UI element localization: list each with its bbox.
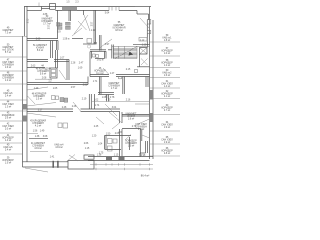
elevator by stairs [140, 48, 148, 55]
left margin separator lines [0, 37, 27, 155]
svg-text:2.1 м²: 2.1 м² [164, 95, 170, 98]
outer top wall [25, 7, 152, 21]
svg-text:18.9 м²: 18.9 м² [115, 29, 123, 32]
dimension texts [31, 2, 147, 159]
svg-text:1.59 м: 1.59 м [63, 39, 70, 41]
svg-text:3.04: 3.04 [112, 107, 117, 109]
stairwell left wall [112, 45, 114, 59]
wall y83 left [27, 77, 88, 85]
svg-text:1.9 м²: 1.9 м² [138, 128, 144, 131]
lower rooms walls [105, 136, 132, 151]
svg-text:1.10: 1.10 [142, 45, 147, 47]
WC door stub [83, 11, 85, 16]
wall WC divider [69, 11, 71, 22]
svg-text:4.91 м²: 4.91 м² [34, 147, 42, 150]
svg-text:1.47: 1.47 [110, 73, 115, 75]
right wall fills [150, 90, 153, 100]
dim line y101 [92, 101, 150, 103]
svg-text:2.78: 2.78 [132, 126, 137, 128]
svg-text:1.02: 1.02 [94, 100, 99, 102]
bottom right inner wall [140, 141, 148, 157]
kitchen room 51 walls [51, 41, 59, 59]
axis circle [87, 45, 90, 48]
corridor vertical wall [120, 112, 123, 157]
svg-text:5.0 м²: 5.0 м² [37, 49, 43, 52]
svg-text:2.66: 2.66 [84, 143, 89, 145]
svg-text:2.57: 2.57 [49, 24, 51, 29]
svg-text:2.57: 2.57 [92, 21, 94, 26]
svg-text:2.0 м²: 2.0 м² [5, 128, 11, 131]
svg-text:4.1 м²: 4.1 м² [35, 125, 41, 128]
svg-text:2.15: 2.15 [126, 69, 131, 71]
top tick [38, 3, 40, 7]
small fixtures left of stair hall [93, 54, 96, 57]
svg-text:2.98: 2.98 [141, 155, 146, 157]
svg-text:1.0 м²: 1.0 м² [164, 52, 170, 55]
svg-text:2.53: 2.53 [28, 18, 30, 23]
svg-text:2.4 м²: 2.4 м² [5, 149, 11, 152]
svg-text:1.05: 1.05 [53, 88, 58, 90]
svg-text:2.16: 2.16 [126, 100, 131, 102]
svg-text:1.8 м²: 1.8 м² [128, 118, 134, 121]
svg-text:1.75: 1.75 [99, 153, 104, 155]
svg-text:1.8 м²: 1.8 м² [164, 39, 170, 42]
svg-text:1.41: 1.41 [50, 157, 55, 159]
interior: wall under top WCs [27, 39, 96, 45]
svg-text:1.71: 1.71 [93, 81, 98, 83]
rooms below wall y75: vertical dividers [98, 77, 148, 95]
door diagonals [74, 15, 88, 34]
fixtures bottom rooms [108, 139, 113, 144]
svg-text:1.20: 1.20 [92, 136, 97, 138]
leader lines left-mid [27, 103, 56, 107]
svg-text:2.28: 2.28 [72, 106, 77, 108]
svg-text:2.57: 2.57 [71, 87, 76, 89]
entrance porch [68, 161, 94, 170]
svg-text:86.4 м²: 86.4 м² [141, 174, 150, 178]
wall between WC and room55 [94, 11, 96, 45]
svg-text:1.4 м²: 1.4 м² [5, 139, 11, 142]
chimney box on top wall [50, 4, 56, 10]
svg-text:1.5 м²: 1.5 м² [128, 145, 134, 148]
svg-text:1.7 м²: 1.7 м² [111, 87, 117, 90]
entrance step [84, 155, 94, 159]
stairwell [112, 46, 150, 58]
svg-text:4.91 м²: 4.91 м² [55, 146, 63, 149]
svg-text:2.6 м²: 2.6 м² [5, 117, 11, 120]
long wall y110 [27, 109, 120, 112]
svg-text:5.64: 5.64 [105, 13, 110, 15]
svg-text:11.1 м²: 11.1 м² [96, 72, 104, 75]
svg-text:1.5 м²: 1.5 м² [5, 162, 11, 165]
svg-text:1.12: 1.12 [140, 40, 145, 42]
dark fill wall top x94 [94, 42, 97, 44]
svg-text:2.63: 2.63 [31, 66, 36, 68]
svg-text:1.69: 1.69 [78, 68, 83, 70]
svg-text:4.70: 4.70 [106, 100, 111, 102]
room divider x123 [123, 77, 125, 95]
svg-text:2.47: 2.47 [79, 63, 84, 65]
lower dim lines under bottom wall [90, 163, 153, 170]
door into lower room [73, 102, 81, 111]
svg-text:3.08: 3.08 [43, 136, 48, 138]
svg-text:1.49: 1.49 [40, 131, 45, 133]
outer left wall [23, 6, 28, 167]
svg-text:1.38: 1.38 [35, 136, 40, 138]
thick wall mid-left [27, 60, 69, 68]
wall y139 small [29, 138, 48, 140]
svg-text:1.2 м²: 1.2 м² [164, 64, 170, 67]
fixtures mid [60, 98, 64, 102]
right margin labels [161, 35, 173, 155]
svg-text:1.56: 1.56 [33, 131, 38, 133]
svg-text:5.7 м²: 5.7 м² [5, 51, 11, 54]
svg-text:1.6 м²: 1.6 м² [5, 66, 11, 69]
svg-text:2.78: 2.78 [110, 97, 115, 99]
svg-text:2.4 м²: 2.4 м² [5, 95, 11, 98]
svg-text:1.38: 1.38 [97, 155, 102, 157]
svg-text:1.2 м²: 1.2 м² [5, 79, 11, 82]
svg-text:2.53: 2.53 [83, 85, 88, 87]
rotated dims [28, 18, 109, 98]
svg-text:1.15: 1.15 [114, 155, 119, 157]
svg-text:1.74: 1.74 [95, 105, 100, 107]
svg-text:1.6 м²: 1.6 м² [164, 74, 170, 77]
bottom wall left part [23, 162, 69, 167]
left margin labels [2, 28, 15, 165]
radiator top right wall [139, 38, 147, 42]
fixtures room 47 [52, 96, 56, 100]
wall above corridor mid [90, 50, 112, 59]
wall room55 left lower [100, 35, 102, 51]
svg-text:2.19: 2.19 [82, 99, 87, 101]
right margin separator lines [150, 42, 180, 156]
wall between room53 and WC [57, 11, 59, 39]
svg-text:2.08: 2.08 [42, 77, 47, 79]
svg-text:1.49: 1.49 [34, 88, 39, 90]
kitchen room walls right [122, 129, 142, 157]
svg-text:5.9 м²: 5.9 м² [40, 73, 46, 76]
svg-text:0.97: 0.97 [105, 44, 110, 46]
entrance door piers [53, 161, 54, 168]
svg-text:2.60: 2.60 [36, 39, 41, 41]
svg-text:2.7 м²: 2.7 м² [164, 109, 170, 112]
svg-text:1.07: 1.07 [60, 58, 65, 60]
svg-text:2.45: 2.45 [94, 126, 99, 128]
svg-text:2.17: 2.17 [38, 110, 43, 112]
svg-text:2.48: 2.48 [62, 107, 67, 109]
vertical walls x67-69 [56, 50, 70, 80]
svg-text:1.3 м²: 1.3 м² [5, 106, 11, 109]
svg-text:7.3 м²: 7.3 м² [5, 32, 11, 35]
bottom wall right part [88, 157, 153, 161]
svg-text:1.9 м²: 1.9 м² [164, 141, 170, 144]
svg-text:1.50: 1.50 [106, 134, 111, 136]
svg-text:2.28: 2.28 [71, 63, 76, 65]
svg-text:1.4 м²: 1.4 м² [164, 85, 170, 88]
filled wall segment top [62, 7, 77, 10]
elevator shaft [50, 68, 57, 78]
floor plan drawing [0, 0, 180, 180]
left wall fills [23, 104, 27, 110]
bottom wall window fills [106, 157, 112, 160]
window hatch top [109, 7, 119, 11]
WC fixtures top [66, 22, 71, 25]
door gap diagonal [112, 123, 120, 129]
svg-text:2.8 м²: 2.8 м² [164, 152, 170, 155]
outer right wall [147, 7, 153, 160]
svg-text:1.61 м: 1.61 м [97, 59, 104, 61]
svg-text:1.9 м²: 1.9 м² [164, 126, 170, 129]
svg-text:4.88: 4.88 [43, 14, 48, 16]
stair arrow head [129, 52, 134, 56]
right wall window jambs [147, 20, 151, 25]
svg-text:1.5 м²: 1.5 м² [36, 98, 42, 101]
small wall x107 [107, 95, 109, 102]
room labels [30, 16, 149, 178]
svg-text:1.04: 1.04 [98, 144, 103, 146]
svg-text:1.15: 1.15 [85, 148, 90, 150]
shaft walls x89-95 [89, 94, 94, 109]
wall y115 right [122, 115, 150, 117]
long wall y75 [90, 52, 150, 77]
svg-text:1.12: 1.12 [91, 30, 96, 32]
